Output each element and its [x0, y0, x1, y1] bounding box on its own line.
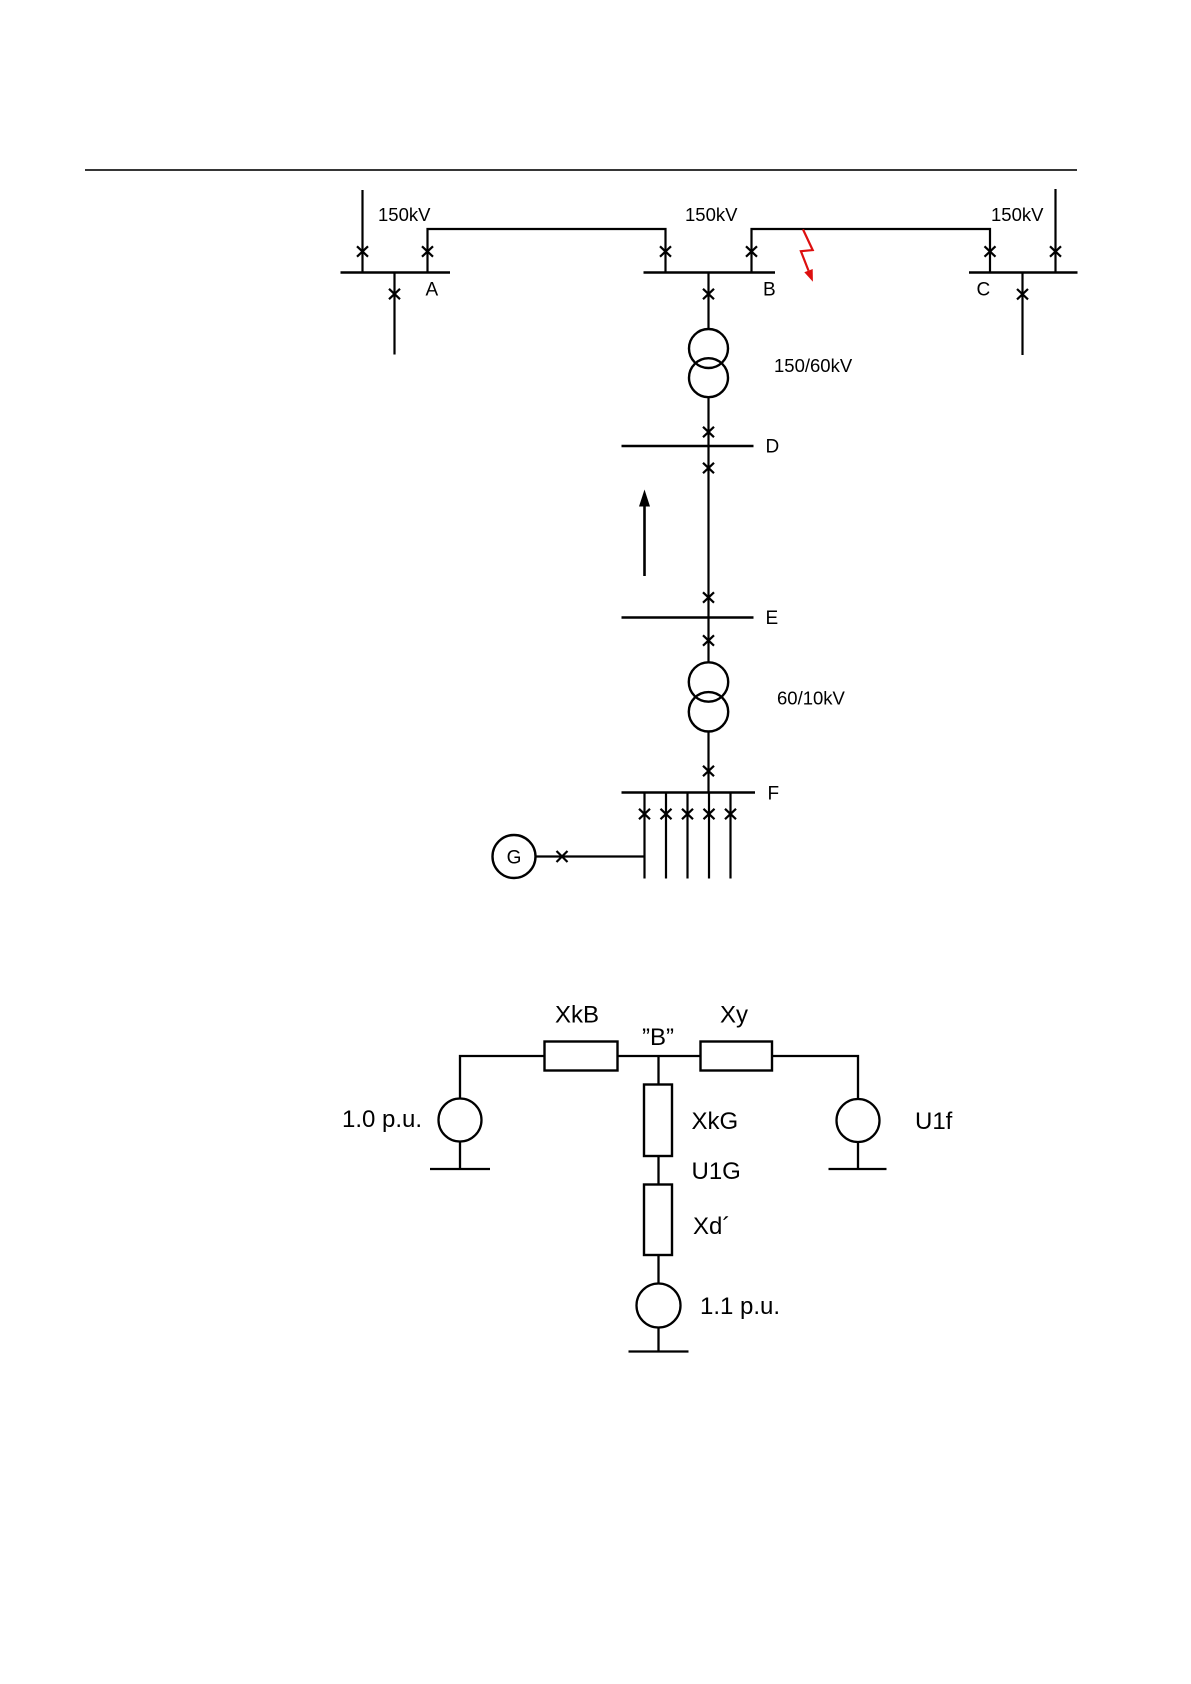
bus E — [622, 616, 754, 619]
breaker X feeder 4 — [704, 809, 715, 819]
svg-text:F: F — [768, 784, 780, 805]
svg-text:150kV: 150kV — [991, 204, 1044, 225]
generator lead wire — [536, 855, 645, 857]
breaker X feeder 2 — [661, 809, 672, 819]
svg-text:150kV: 150kV — [685, 204, 738, 225]
wire T1 to bus D — [707, 397, 709, 446]
svg-text:G: G — [507, 848, 522, 869]
incoming supply line at bus C — [1054, 189, 1056, 273]
wire node B down to XkG — [657, 1056, 659, 1085]
breaker X above bus E — [703, 592, 714, 602]
svg-text:B: B — [763, 280, 776, 301]
svg-text:U1G: U1G — [692, 1158, 741, 1185]
transformer T2 60/10kV — [689, 662, 728, 701]
svg-text:A: A — [426, 280, 439, 301]
generator G — [493, 835, 536, 878]
wire: Xy to right source — [773, 1056, 859, 1099]
svg-text:E: E — [766, 608, 779, 629]
breaker X below bus D — [703, 463, 714, 473]
wire: left source to XkB — [460, 1056, 545, 1099]
breaker X on feeder below A — [389, 289, 400, 299]
source 1.0 p.u. (left) — [439, 1099, 482, 1142]
outgoing feeder below bus A — [393, 273, 395, 355]
breaker X on incoming supply C — [1050, 246, 1061, 256]
svg-text:Xd´: Xd´ — [693, 1213, 730, 1240]
svg-text:1.1 p.u.: 1.1 p.u. — [700, 1293, 780, 1320]
svg-text:U1f: U1f — [915, 1108, 953, 1135]
breaker X on incoming supply A — [357, 246, 368, 256]
line A-B — [428, 229, 666, 273]
breaker X feeder 3 — [682, 809, 693, 819]
bus B — [644, 271, 776, 274]
wire: XkB to Xy through node B — [618, 1055, 701, 1057]
feeder 1 below bus F — [643, 793, 645, 879]
wire bus E to transformer T2 — [707, 618, 709, 664]
wire Xd' to source 1.1 p.u. — [657, 1255, 659, 1284]
svg-text:60/10kV: 60/10kV — [777, 688, 846, 709]
svg-text:150/60kV: 150/60kV — [774, 355, 853, 376]
page header rule — [85, 169, 1077, 171]
source 1.1 p.u. (generator emf) — [637, 1284, 681, 1328]
svg-text:XkG: XkG — [692, 1108, 739, 1135]
feeder 5 below bus F — [729, 793, 731, 879]
fault lightning arrow (red) — [801, 229, 813, 270]
reactance Xd' — [644, 1185, 672, 1256]
svg-text:Xy: Xy — [720, 1002, 748, 1029]
bus D — [622, 445, 754, 448]
breaker X feeder 5 — [725, 809, 736, 819]
wire bus B to transformer T1 — [707, 273, 709, 331]
wire XkG to Xd' — [657, 1156, 659, 1185]
resistor Xy — [701, 1042, 773, 1071]
feeder 4 below bus F — [708, 793, 710, 879]
line bus D to bus E — [707, 446, 709, 618]
svg-text:150kV: 150kV — [378, 204, 431, 225]
source U1f (right) — [837, 1099, 880, 1142]
bus F — [622, 791, 756, 794]
breaker X below bus E — [703, 635, 714, 645]
breaker X feeder 1 — [639, 809, 650, 819]
svg-text:C: C — [977, 280, 991, 301]
incoming supply line at bus A — [361, 190, 363, 273]
line B-C — [752, 229, 991, 273]
ground (right source) — [857, 1142, 859, 1169]
bus C — [969, 271, 1078, 274]
svg-text:”B”: ”B” — [642, 1024, 674, 1051]
bus A — [341, 271, 451, 274]
transformer T1 150/60kV — [689, 329, 728, 368]
breaker X line B-C at B — [746, 246, 757, 256]
wire T2 to bus F — [707, 732, 709, 793]
outgoing feeder below bus C — [1021, 273, 1023, 356]
power-flow arrow — [643, 505, 646, 576]
feeder 2 below bus F — [665, 793, 667, 879]
feeder 3 below bus F — [686, 793, 688, 879]
breaker X on generator lead — [557, 851, 568, 862]
svg-text:1.0 p.u.: 1.0 p.u. — [342, 1106, 422, 1133]
breaker X line A-B at B — [660, 246, 671, 256]
svg-text:XkB: XkB — [555, 1002, 599, 1029]
ground (left source) — [459, 1142, 461, 1170]
breaker X above bus D — [703, 427, 714, 437]
breaker X above bus F — [703, 766, 714, 776]
reactance XkG — [644, 1085, 672, 1157]
resistor XkB — [545, 1042, 618, 1071]
breaker X on feeder below C — [1017, 289, 1028, 299]
svg-text:D: D — [766, 437, 780, 458]
breaker X line B-C at C — [985, 246, 996, 256]
ground (1.1 p.u. source) — [657, 1328, 659, 1352]
breaker X between bus B and T1 — [703, 289, 714, 299]
breaker X line A-B at A — [422, 246, 433, 256]
